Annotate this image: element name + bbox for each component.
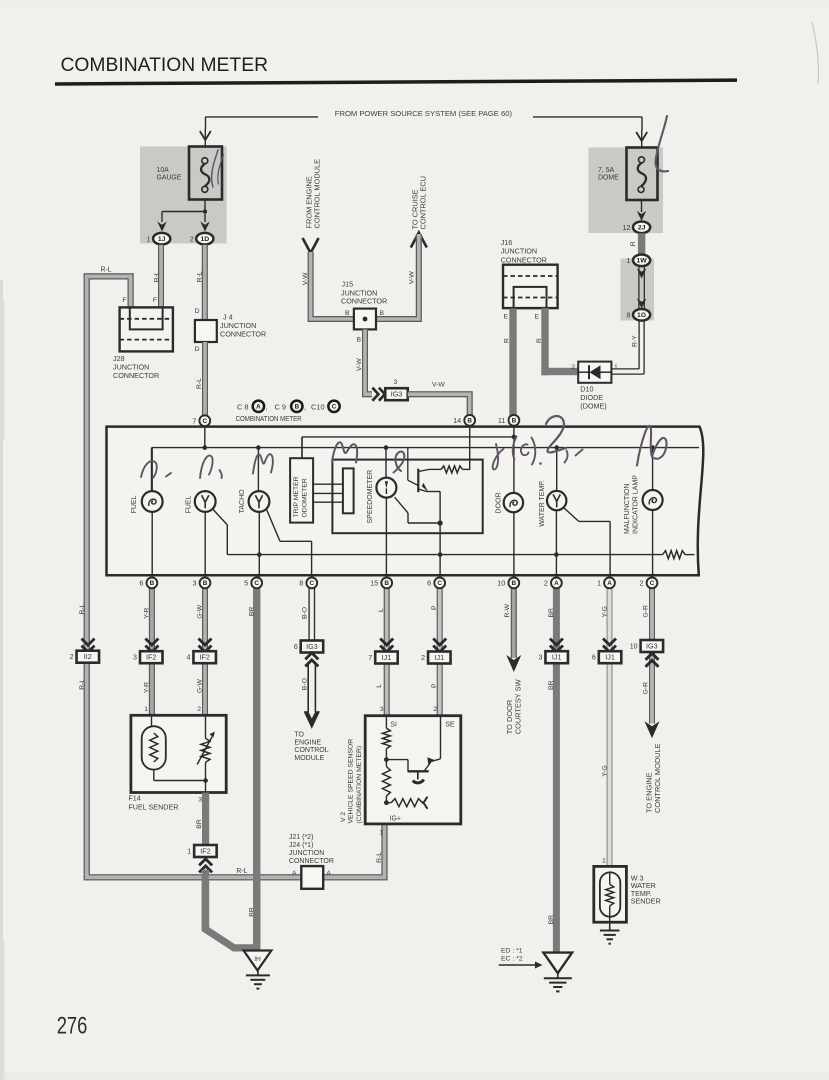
svg-text:1: 1 <box>597 579 601 588</box>
svg-text:B: B <box>467 418 472 425</box>
svg-text:IF2: IF2 <box>200 846 210 855</box>
svg-text:B: B <box>345 310 350 317</box>
svg-text:CONNECTOR: CONNECTOR <box>113 371 159 380</box>
svg-text:,: , <box>304 403 306 412</box>
svg-text:COMBINATION METER: COMBINATION METER <box>236 414 302 423</box>
svg-text:1W: 1W <box>636 258 647 265</box>
svg-text:MALFUNCTION: MALFUNCTION <box>624 483 631 534</box>
svg-text:2: 2 <box>433 706 437 713</box>
svg-text:IJ1: IJ1 <box>382 653 392 662</box>
svg-text:G-W: G-W <box>197 604 204 619</box>
svg-text:C: C <box>202 418 207 425</box>
svg-text:J15: J15 <box>342 280 354 289</box>
svg-text:R-W: R-W <box>504 603 511 617</box>
svg-text:B: B <box>356 337 361 344</box>
svg-text:3: 3 <box>538 654 542 662</box>
svg-text:R-L: R-L <box>197 271 204 282</box>
svg-text:2: 2 <box>197 706 201 713</box>
svg-text:2: 2 <box>639 579 643 588</box>
svg-text:C: C <box>650 580 655 587</box>
svg-text:IG3: IG3 <box>646 641 658 650</box>
svg-text:1: 1 <box>627 256 631 265</box>
svg-text:7, 5A: 7, 5A <box>598 167 614 174</box>
svg-text:2: 2 <box>190 234 194 243</box>
svg-text:D: D <box>195 308 200 315</box>
svg-text:G-R: G-R <box>643 605 650 618</box>
svg-text:C: C <box>332 403 337 410</box>
svg-text:Y-R: Y-R <box>144 608 151 619</box>
svg-text:BR: BR <box>548 608 555 618</box>
svg-text:L: L <box>378 608 385 612</box>
svg-text:DOME: DOME <box>598 175 619 182</box>
svg-text:VEHICLE SPEED SENSOR: VEHICLE SPEED SENSOR <box>348 739 355 824</box>
svg-text:ODOMETER: ODOMETER <box>301 478 308 517</box>
svg-text:,: , <box>266 403 268 412</box>
svg-text:276: 276 <box>57 1013 88 1040</box>
svg-text:1J: 1J <box>158 236 166 243</box>
svg-text:1D: 1D <box>200 236 209 243</box>
svg-text:A: A <box>256 403 261 410</box>
svg-text:C10: C10 <box>311 403 325 412</box>
svg-text:V 2: V 2 <box>340 812 347 822</box>
svg-text:3: 3 <box>133 654 137 662</box>
svg-text:P: P <box>431 605 438 610</box>
svg-text:IH: IH <box>254 956 261 963</box>
svg-text:5: 5 <box>244 579 248 588</box>
svg-text:A: A <box>326 870 331 877</box>
svg-text:JUNCTION: JUNCTION <box>289 850 324 857</box>
svg-text:F14: F14 <box>128 794 140 803</box>
svg-text:FUEL SENDER: FUEL SENDER <box>128 802 178 811</box>
svg-text:IJ1: IJ1 <box>605 653 615 662</box>
svg-text:B-O: B-O <box>302 607 309 619</box>
svg-text:INDICATOR LAMP: INDICATOR LAMP <box>633 475 640 534</box>
svg-text:4: 4 <box>186 654 190 662</box>
svg-text:G-R: G-R <box>643 682 650 695</box>
svg-text:A: A <box>292 870 297 877</box>
svg-text:E: E <box>534 314 539 321</box>
svg-text:R: R <box>536 338 543 343</box>
svg-text:TO: TO <box>294 732 304 739</box>
svg-text:V-W: V-W <box>409 271 416 284</box>
svg-text:II2: II2 <box>84 652 92 661</box>
svg-text:EC : *2: EC : *2 <box>501 956 523 963</box>
svg-text:3: 3 <box>198 797 202 804</box>
svg-text:CONNECTOR: CONNECTOR <box>341 297 387 306</box>
svg-text:Y-G: Y-G <box>601 765 608 776</box>
svg-text:6: 6 <box>139 579 143 588</box>
svg-text:CONNECTOR: CONNECTOR <box>501 255 547 264</box>
svg-text:FUEL: FUEL <box>131 495 138 513</box>
svg-text:TRIP METER: TRIP METER <box>293 476 300 517</box>
svg-text:10: 10 <box>630 642 638 650</box>
svg-text:SI: SI <box>390 721 397 728</box>
svg-text:SPEEDOMETER: SPEEDOMETER <box>367 470 374 524</box>
svg-text:B: B <box>512 418 517 425</box>
svg-text:CONTROL MODULE: CONTROL MODULE <box>312 159 321 229</box>
svg-text:B: B <box>150 580 155 587</box>
svg-text:FROM POWER SOURCE SYSTEM (SEE: FROM POWER SOURCE SYSTEM (SEE PAGE 60) <box>335 111 512 118</box>
svg-text:1: 1 <box>379 830 383 837</box>
svg-text:L: L <box>376 684 383 688</box>
svg-text:C: C <box>254 580 259 587</box>
svg-text:B-O: B-O <box>302 678 309 690</box>
svg-text:B: B <box>203 580 208 587</box>
svg-text:6: 6 <box>592 654 596 662</box>
svg-text:1: 1 <box>147 234 151 243</box>
svg-text:IG3: IG3 <box>306 642 318 651</box>
svg-text:J24 (*1): J24 (*1) <box>289 842 314 849</box>
svg-text:1G: 1G <box>637 312 646 319</box>
svg-text:14: 14 <box>453 416 461 425</box>
svg-text:6: 6 <box>427 579 431 588</box>
svg-text:V-W: V-W <box>356 358 363 371</box>
svg-text:BR: BR <box>548 915 555 925</box>
svg-text:D: D <box>195 346 200 353</box>
svg-text:R-L: R-L <box>196 378 203 389</box>
svg-text:IJ1: IJ1 <box>435 653 445 662</box>
svg-text:1: 1 <box>614 364 618 371</box>
svg-text:R-Y: R-Y <box>631 335 638 347</box>
svg-text:6: 6 <box>294 643 298 651</box>
svg-text:C: C <box>437 580 442 587</box>
svg-text:8: 8 <box>299 579 303 588</box>
svg-text:IG3: IG3 <box>391 390 403 399</box>
svg-text:R-L: R-L <box>79 679 86 690</box>
svg-text:JUNCTION: JUNCTION <box>501 247 537 256</box>
svg-text:BR: BR <box>548 680 555 690</box>
svg-text:A: A <box>607 580 612 587</box>
svg-text:ENGINE: ENGINE <box>294 739 321 746</box>
svg-text:1: 1 <box>144 706 148 713</box>
svg-text:2: 2 <box>421 654 425 662</box>
svg-text:2J: 2J <box>638 225 646 232</box>
svg-text:R: R <box>630 241 637 246</box>
svg-text:12: 12 <box>623 223 631 232</box>
svg-text:V-W: V-W <box>432 382 445 389</box>
svg-text:R-L: R-L <box>376 852 383 863</box>
svg-text:FUEL: FUEL <box>186 495 193 513</box>
svg-text:3: 3 <box>192 579 196 588</box>
svg-text:GAUGE: GAUGE <box>157 175 182 182</box>
svg-text:MODULE: MODULE <box>294 755 324 762</box>
svg-text:10A: 10A <box>157 167 170 174</box>
svg-text:A: A <box>554 580 559 587</box>
svg-text:R-L: R-L <box>101 266 112 273</box>
svg-text:CONTROL MODULE: CONTROL MODULE <box>653 743 662 813</box>
svg-text:G-W: G-W <box>197 679 204 694</box>
svg-text:7: 7 <box>192 416 196 425</box>
svg-text:C: C <box>309 580 314 587</box>
svg-text:F: F <box>153 297 157 304</box>
svg-text:J16: J16 <box>501 238 513 247</box>
svg-text:C 8: C 8 <box>237 403 249 412</box>
svg-text:CONNECTOR: CONNECTOR <box>220 330 266 339</box>
svg-text:B: B <box>511 580 516 587</box>
svg-text:3: 3 <box>394 379 398 386</box>
svg-text:R-L: R-L <box>154 271 161 282</box>
svg-text:IJ1: IJ1 <box>552 653 562 662</box>
svg-text:R-L: R-L <box>236 868 247 875</box>
svg-text:1: 1 <box>187 847 191 855</box>
svg-text:SE: SE <box>445 721 455 728</box>
svg-text:B: B <box>295 403 300 410</box>
svg-text:TACHO: TACHO <box>239 489 246 514</box>
svg-text:CONTROL: CONTROL <box>294 747 328 754</box>
svg-text:10: 10 <box>497 579 505 588</box>
svg-text:15: 15 <box>370 579 378 588</box>
svg-text:Y-G: Y-G <box>601 606 608 617</box>
svg-text:E: E <box>503 314 508 321</box>
svg-text:C 9: C 9 <box>275 403 287 412</box>
svg-text:IF2: IF2 <box>200 653 210 662</box>
svg-text:BR: BR <box>196 819 203 829</box>
svg-text:COMBINATION METER: COMBINATION METER <box>61 54 269 76</box>
svg-text:B: B <box>384 580 389 587</box>
svg-text:3: 3 <box>380 706 384 713</box>
svg-text:CONNECTOR: CONNECTOR <box>289 858 334 865</box>
svg-text:SENDER: SENDER <box>631 897 661 906</box>
svg-text:7: 7 <box>368 654 372 662</box>
svg-text:1: 1 <box>602 857 606 864</box>
svg-text:IF2: IF2 <box>146 653 156 662</box>
svg-text:WATER TEMP.: WATER TEMP. <box>539 480 546 527</box>
svg-text:V-W: V-W <box>302 272 309 285</box>
svg-text:F: F <box>122 297 126 304</box>
svg-text:IG+: IG+ <box>390 816 401 823</box>
svg-text:COURTESY SW: COURTESY SW <box>514 679 523 734</box>
svg-text:11: 11 <box>498 416 506 425</box>
svg-text:(COMBINATION METER): (COMBINATION METER) <box>356 746 363 824</box>
svg-text:J21 (*2): J21 (*2) <box>289 834 314 841</box>
svg-text:DOOR: DOOR <box>495 493 502 514</box>
svg-text:ED : *1: ED : *1 <box>501 947 523 954</box>
svg-text:R: R <box>504 338 511 343</box>
svg-text:2: 2 <box>70 653 74 661</box>
svg-text:8: 8 <box>627 310 631 319</box>
svg-text:2: 2 <box>571 364 575 371</box>
svg-text:2: 2 <box>544 579 548 588</box>
svg-text:CONTROL ECU: CONTROL ECU <box>419 176 428 230</box>
svg-text:Y-R: Y-R <box>144 682 151 693</box>
svg-text:(DOME): (DOME) <box>580 402 606 411</box>
svg-text:BR: BR <box>248 607 255 617</box>
svg-text:B: B <box>380 310 385 317</box>
svg-text:R-L: R-L <box>79 603 86 614</box>
svg-text:P: P <box>431 683 438 688</box>
